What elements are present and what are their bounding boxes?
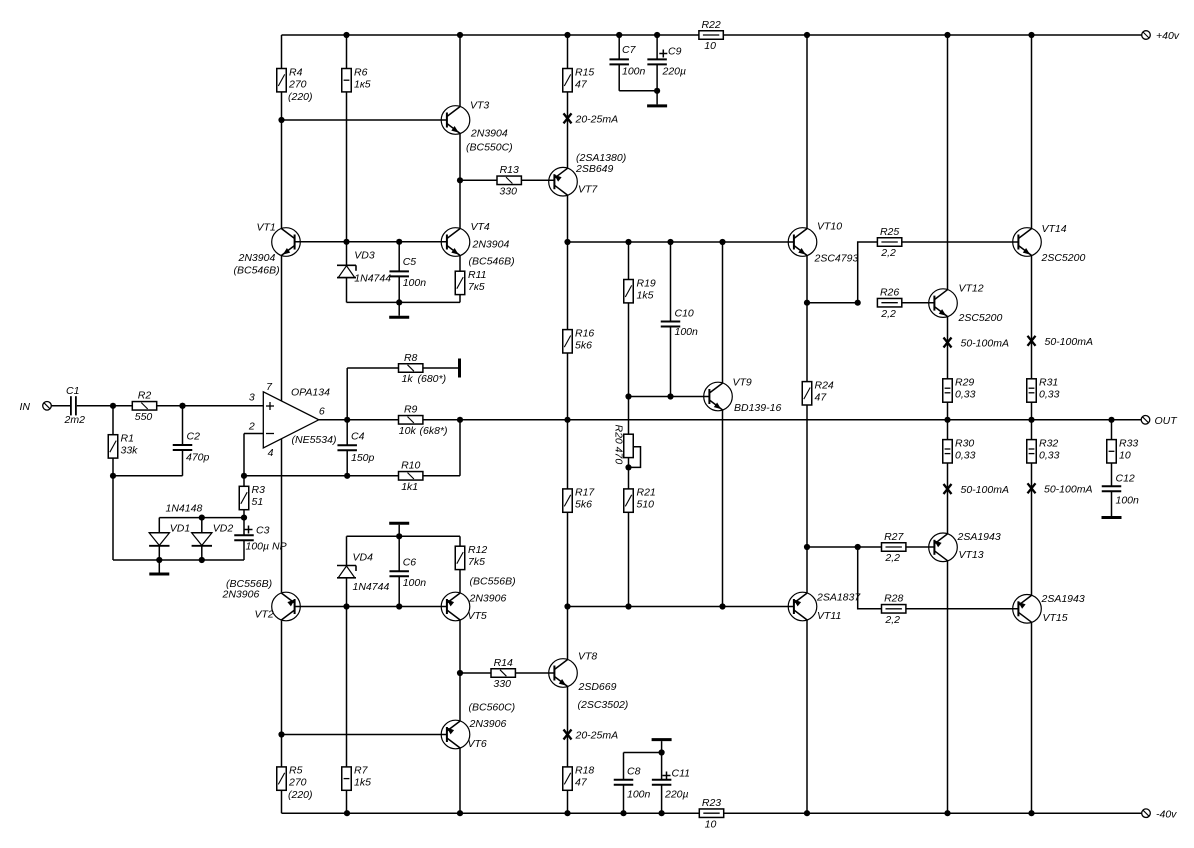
- junction VT6 base wire: [278, 731, 284, 737]
- wire C7 bottom: [618, 64, 620, 90]
- wire C2 top: [182, 406, 184, 445]
- resistor R16: [563, 327, 595, 353]
- svg-text:20-25mA: 20-25mA: [575, 730, 619, 742]
- wire rail to VT12: [947, 35, 949, 290]
- wire R13 to VT7 base: [521, 179, 554, 181]
- wire VT6 base wire: [282, 734, 447, 736]
- svg-text:2SD669: 2SD669: [578, 681, 617, 693]
- svg-text:2: 2: [248, 421, 255, 433]
- svg-text:R27: R27: [884, 531, 904, 543]
- diode VD1: [149, 523, 190, 546]
- svg-text:(NE5534): (NE5534): [292, 434, 337, 446]
- label OUT: [1155, 415, 1179, 427]
- junction C10 bottom: [667, 393, 673, 399]
- wire C6 bottom: [398, 576, 400, 606]
- svg-text:2m2: 2m2: [64, 414, 86, 426]
- resistor R4: [277, 66, 313, 103]
- svg-text:R22: R22: [701, 19, 720, 31]
- wire rail to R15: [567, 35, 569, 69]
- wire R19 to R20: [628, 303, 630, 434]
- svg-text:0,33: 0,33: [955, 449, 976, 461]
- wire VT10 emitter to R24: [806, 255, 808, 381]
- terminal IN: [43, 402, 52, 411]
- zener diode VD3: [337, 265, 356, 277]
- svg-text:R30: R30: [955, 437, 974, 449]
- svg-text:2SB649: 2SB649: [575, 163, 614, 175]
- wire feedback row to R10: [244, 475, 399, 477]
- wire R30 to VT13: [947, 463, 949, 534]
- svg-text:2SC4793: 2SC4793: [814, 253, 859, 265]
- wire C5 bottom: [398, 276, 400, 302]
- wire VT1 base to VT4 base: [295, 241, 447, 243]
- svg-text:-40v: -40v: [1156, 809, 1177, 821]
- capacitor C6: [389, 557, 426, 589]
- capacitor C8: [614, 766, 651, 801]
- svg-text:C1: C1: [66, 385, 79, 397]
- junction R33 top: [1108, 417, 1114, 423]
- svg-text:C10: C10: [675, 308, 694, 320]
- wire output node up to R8: [346, 368, 348, 420]
- wire C4 bottom: [346, 450, 348, 476]
- junction R27/R28 tap: [804, 544, 810, 550]
- junction R21/lower rail: [625, 603, 631, 609]
- svg-text:R15: R15: [575, 66, 594, 78]
- capacitor C4: [337, 431, 374, 464]
- wire C5 top: [398, 242, 400, 272]
- wire rail to VT8 collector: [567, 607, 569, 660]
- wire VT14 emitter to R31: [1031, 255, 1033, 378]
- svg-text:R25: R25: [880, 226, 899, 238]
- svg-text:VD2: VD2: [213, 523, 234, 535]
- inverted ground C8 C11: [652, 738, 672, 741]
- svg-text:2SC5200: 2SC5200: [1041, 252, 1086, 264]
- svg-text:7: 7: [266, 381, 273, 393]
- transistor VT14 2SC5200: [1013, 223, 1086, 264]
- svg-text:2N3906: 2N3906: [469, 718, 507, 730]
- svg-text:R9: R9: [404, 404, 418, 416]
- wire R3 top: [243, 476, 245, 487]
- junction VD2 top: [199, 515, 205, 521]
- junction R19 top: [625, 239, 631, 245]
- junction C8 bottom: [620, 810, 626, 816]
- svg-text:C7: C7: [622, 44, 637, 56]
- wire rail to R4: [281, 35, 283, 69]
- svg-text:R7: R7: [354, 765, 369, 777]
- junction R20 wiper: [625, 464, 631, 470]
- svg-text:5k6: 5k6: [575, 339, 592, 351]
- wire stub: [661, 741, 663, 752]
- svg-text:+40v: +40v: [1156, 30, 1180, 42]
- resistor R21: [624, 487, 656, 513]
- junction feedback/R3: [241, 473, 247, 479]
- svg-text:VT3: VT3: [470, 100, 489, 112]
- junction R25/R26 tap: [804, 300, 810, 306]
- svg-text:510: 510: [637, 499, 655, 511]
- junction R14 tap: [457, 670, 463, 676]
- junction R9/R10/output: [457, 417, 463, 423]
- wire R12 to VT5: [459, 570, 461, 594]
- svg-text:2,2: 2,2: [884, 552, 900, 564]
- junction R6/VD3: [343, 239, 349, 245]
- wire C10 bottom: [670, 327, 672, 397]
- wire pin2 down to feedback node: [243, 434, 245, 476]
- svg-text:R17: R17: [575, 487, 595, 499]
- svg-text:33k: 33k: [121, 445, 139, 457]
- transistor VT3 2N3904: [441, 100, 512, 154]
- svg-text:C12: C12: [1116, 473, 1135, 485]
- wire C9 top stub: [656, 35, 658, 59]
- resistor R12: [455, 544, 487, 570]
- transistor VT5 2N3906: [441, 576, 515, 623]
- svg-text:VT10: VT10: [817, 221, 842, 233]
- junction output/R31/R32: [1028, 417, 1034, 423]
- svg-text:VT6: VT6: [468, 738, 487, 750]
- junction VT7/R16: [564, 239, 570, 245]
- svg-text:R1: R1: [121, 433, 134, 445]
- svg-text:VT7: VT7: [578, 184, 598, 196]
- svg-text:1k5: 1k5: [354, 777, 371, 789]
- wire R4 to VT1 collector: [281, 92, 283, 229]
- svg-text:550: 550: [135, 411, 153, 423]
- wire VT7 to emitter rail: [567, 195, 569, 242]
- svg-text:C6: C6: [403, 557, 417, 569]
- svg-text:VD3: VD3: [354, 250, 375, 262]
- svg-text:2N3904: 2N3904: [238, 252, 276, 264]
- wire VT8 emitter to R18: [567, 686, 569, 767]
- wire C7 to C9 ground: [619, 90, 657, 92]
- junction R27/R28: [855, 544, 861, 550]
- wire C11 top stub: [661, 753, 663, 780]
- svg-text:2SC5200: 2SC5200: [958, 312, 1003, 324]
- ground C7C9: [647, 104, 667, 107]
- svg-text:VD4: VD4: [353, 552, 374, 564]
- svg-text:7к5: 7к5: [468, 281, 485, 293]
- svg-text:(680*): (680*): [418, 373, 447, 385]
- svg-text:VT11: VT11: [817, 610, 841, 622]
- svg-text:270: 270: [288, 777, 307, 789]
- junction C1/R1/R2: [110, 403, 116, 409]
- ground C12: [1102, 516, 1122, 519]
- resistor R18: [563, 765, 595, 791]
- svg-text:2,2: 2,2: [880, 247, 896, 259]
- wire rail to VT10: [806, 35, 808, 229]
- resistor R26: [877, 287, 901, 320]
- wire VD4 to base rail: [346, 578, 348, 607]
- resistor R19: [624, 277, 656, 303]
- capacitor C7: [609, 44, 645, 78]
- junction R25/R26: [855, 300, 861, 306]
- junction output/R29/R30: [944, 417, 950, 423]
- wire rail to R19: [628, 242, 630, 280]
- svg-text:10: 10: [705, 818, 717, 830]
- svg-text:7k5: 7k5: [468, 556, 485, 568]
- junction VT9/lower rail: [719, 603, 725, 609]
- svg-text:20-25mA: 20-25mA: [575, 114, 619, 126]
- junction VD2 bottom: [199, 557, 205, 563]
- wire up to R25: [858, 242, 878, 303]
- svg-text:R2: R2: [138, 390, 152, 402]
- transistor VT2 2N3906: [222, 578, 301, 621]
- current test point VT12 bias: [944, 338, 1009, 350]
- svg-text:1к5: 1к5: [354, 78, 371, 90]
- current test point VT15 bias: [1028, 483, 1093, 495]
- svg-text:270: 270: [288, 78, 307, 90]
- junction VT13 bottom: [944, 810, 950, 816]
- wire R25 to VT14 base: [902, 241, 1019, 243]
- capacitor C5: [389, 256, 426, 289]
- svg-text:1N4744: 1N4744: [354, 273, 391, 285]
- wire VD1 bottom stub: [158, 546, 160, 560]
- wire R24 to VT11: [806, 405, 808, 593]
- svg-text:C4: C4: [351, 431, 365, 443]
- svg-text:5k6: 5k6: [575, 499, 592, 511]
- terminal OUT: [1141, 416, 1150, 425]
- resistor R22: [699, 19, 723, 52]
- svg-text:VT5: VT5: [468, 610, 487, 622]
- resistor R8: [399, 352, 447, 385]
- resistor R2: [132, 390, 156, 423]
- capacitor C9: [647, 46, 686, 78]
- svg-text:2,2: 2,2: [880, 308, 896, 320]
- junction R1/C2 bottom: [110, 473, 116, 479]
- junction R15 top: [564, 32, 570, 38]
- svg-text:50-100mA: 50-100mA: [1044, 483, 1092, 495]
- current test point top bias: [564, 113, 619, 125]
- junction C10 top: [667, 239, 673, 245]
- wire bottom supply rail right of R23: [723, 812, 1142, 814]
- transistor VT1 2N3904: [234, 222, 301, 277]
- junction C5 top: [396, 239, 402, 245]
- svg-text:0,33: 0,33: [1039, 389, 1060, 401]
- svg-text:150p: 150p: [351, 452, 375, 464]
- junction C5 bottom: [396, 299, 402, 305]
- resistor R28: [882, 593, 906, 626]
- junction R13 tap: [457, 177, 463, 183]
- wire R33 to C12: [1111, 463, 1113, 486]
- svg-text:R20 470: R20 470: [613, 425, 625, 465]
- svg-text:100n: 100n: [403, 577, 427, 589]
- junction opamp output: [344, 417, 350, 423]
- junction C11 top: [659, 749, 665, 755]
- wire R11 to rail: [459, 295, 461, 303]
- junction R3/C3/diodes: [241, 515, 247, 521]
- wire C10 top: [670, 242, 672, 322]
- junction C9 bottom: [654, 88, 660, 94]
- svg-text:R16: R16: [575, 327, 594, 339]
- zener diode VD4: [337, 566, 356, 578]
- wire VD4 bottom to R7: [346, 607, 348, 767]
- wire R17 to lower rail: [567, 512, 569, 606]
- svg-text:IN: IN: [20, 401, 31, 413]
- resistor R7: [342, 765, 371, 791]
- wire C7 top stub: [618, 35, 620, 59]
- wire C3 bottom: [243, 540, 245, 560]
- wire top supply rail right of R22: [723, 34, 1141, 36]
- svg-text:3: 3: [249, 392, 255, 404]
- open stub terminal at R8: [458, 359, 461, 378]
- wire VD3 to C5 rail: [346, 278, 348, 303]
- wire bottom supply rail left of R23: [282, 812, 700, 814]
- junction R18 bottom: [564, 810, 570, 816]
- wire C11 bottom: [661, 785, 663, 813]
- transistor VT12 2SC5200: [929, 283, 1003, 325]
- wire R1 top: [112, 406, 114, 435]
- wire lower bias rail to VT11: [568, 606, 794, 608]
- svg-text:VD1: VD1: [170, 523, 190, 535]
- diode VD2: [192, 523, 234, 546]
- wire signal ground rail: [113, 559, 244, 561]
- junction VD4/R7: [343, 603, 349, 609]
- svg-text:R26: R26: [880, 287, 899, 299]
- junction R16/R17 output: [564, 417, 570, 423]
- resistor R31: [1027, 377, 1060, 403]
- junction R6 top: [343, 32, 349, 38]
- op-amp U1 OPA134: [248, 381, 337, 459]
- wire ground stub C5: [398, 302, 400, 315]
- junction VT10 collector: [804, 32, 810, 38]
- transistor VT8 2SD669: [549, 651, 629, 712]
- svg-text:R28: R28: [884, 593, 903, 605]
- transistor VT10 2SC4793: [788, 221, 858, 265]
- resistor R33: [1107, 437, 1139, 463]
- svg-text:R5: R5: [289, 765, 303, 777]
- svg-text:R33: R33: [1119, 437, 1138, 449]
- current test point VT14 bias: [1028, 336, 1093, 348]
- svg-text:BD139-16: BD139-16: [734, 402, 781, 414]
- capacitor C2: [173, 431, 210, 464]
- svg-text:0,33: 0,33: [1039, 449, 1060, 461]
- wire rail to VD4: [346, 536, 348, 565]
- junction R19/VT9 base: [625, 393, 631, 399]
- wire VT9 emitter to lower rail: [722, 410, 724, 607]
- svg-text:10: 10: [1119, 449, 1131, 461]
- svg-text:VT4: VT4: [471, 221, 490, 233]
- svg-text:47: 47: [815, 391, 828, 403]
- wire R8 to stub: [423, 367, 460, 369]
- svg-text:2N3904: 2N3904: [472, 239, 510, 251]
- svg-text:50-100mA: 50-100mA: [961, 484, 1009, 496]
- svg-text:2,2: 2,2: [884, 614, 900, 626]
- wire VT12 emitter to R29: [947, 317, 949, 379]
- svg-text:R19: R19: [637, 277, 656, 289]
- wire R27 to VT13 base: [906, 546, 935, 548]
- wire tap to R26 node: [807, 302, 858, 304]
- svg-text:1N4148: 1N4148: [166, 503, 203, 515]
- svg-text:R14: R14: [494, 657, 513, 669]
- wire R18 to bottom rail: [567, 790, 569, 813]
- svg-text:100µ NP: 100µ NP: [246, 541, 287, 553]
- svg-text:1k: 1k: [402, 373, 414, 385]
- wire VD2 bottom stub: [201, 546, 203, 560]
- resistor R9: [399, 404, 448, 437]
- wire to VT9 base: [629, 396, 710, 398]
- svg-text:50-100mA: 50-100mA: [961, 338, 1009, 350]
- wire ground stub: [158, 560, 160, 573]
- junction VT15 bottom: [1028, 810, 1034, 816]
- resistor R13: [497, 164, 521, 197]
- inverted ground C6: [389, 522, 409, 525]
- wire R2 to opamp pin3: [157, 405, 264, 407]
- junction R7 bottom: [344, 810, 350, 816]
- svg-text:1k5: 1k5: [637, 289, 654, 301]
- svg-text:VT8: VT8: [578, 651, 597, 663]
- svg-text:100n: 100n: [403, 277, 427, 289]
- wire C5 ground rail: [347, 301, 461, 303]
- wire R5 to bottom rail: [281, 790, 283, 813]
- svg-text:C2: C2: [187, 431, 201, 443]
- svg-text:R31: R31: [1039, 377, 1058, 389]
- terminal +40v: [1142, 31, 1151, 40]
- wire R21 to lower rail: [628, 512, 630, 606]
- wire C12 to ground: [1111, 491, 1113, 516]
- junction C4 bottom: [344, 473, 350, 479]
- wire VT2 to R5: [281, 621, 283, 767]
- svg-text:VT13: VT13: [959, 549, 984, 561]
- label -40v: [1156, 809, 1177, 821]
- svg-text:330: 330: [499, 186, 517, 198]
- wire to VD3: [346, 242, 348, 265]
- svg-text:2SA1943: 2SA1943: [1041, 593, 1085, 605]
- junction VT6 bottom: [457, 810, 463, 816]
- svg-text:6: 6: [319, 406, 325, 418]
- svg-text:OUT: OUT: [1155, 415, 1179, 427]
- svg-text:100n: 100n: [622, 66, 646, 78]
- wire R7 to bottom rail: [346, 790, 348, 813]
- junction ground stub: [156, 557, 162, 563]
- wire ground stub to rail: [398, 525, 400, 537]
- wire C2 bottom: [182, 450, 184, 476]
- wire VT4 emitter to R11: [459, 255, 461, 271]
- svg-text:R29: R29: [955, 377, 974, 389]
- wire R31 to R32: [1031, 402, 1033, 439]
- svg-text:VT15: VT15: [1043, 612, 1068, 624]
- wire IN to C1: [51, 405, 70, 407]
- svg-text:330: 330: [493, 678, 511, 690]
- label +40v: [1156, 30, 1180, 42]
- junction VT14 collector: [1028, 32, 1034, 38]
- svg-text:220µ: 220µ: [662, 66, 687, 78]
- svg-text:R21: R21: [637, 487, 656, 499]
- transistor VT7 2SB649: [549, 152, 627, 196]
- wire R16 to output rail: [567, 353, 569, 420]
- capacitor C11: [652, 768, 690, 801]
- junction VT12 collector: [944, 32, 950, 38]
- resistor R11: [455, 269, 486, 295]
- capacitor C3: [234, 525, 286, 553]
- svg-text:(BC546B): (BC546B): [469, 256, 515, 268]
- wire VT13 collector to bottom rail: [947, 561, 949, 814]
- wire C8 top: [623, 753, 625, 780]
- wire VT11 collector to bottom rail: [806, 620, 808, 813]
- wire rail to R16: [567, 242, 569, 330]
- wire R26 to VT12 base: [902, 302, 935, 304]
- svg-text:10: 10: [704, 40, 716, 52]
- wire R10 node up to output rail: [459, 420, 461, 476]
- svg-text:R6: R6: [354, 66, 368, 78]
- resistor R30: [943, 437, 976, 463]
- junction C9 top: [654, 32, 660, 38]
- resistor R32: [1027, 437, 1060, 463]
- wire C8 to C11 top: [624, 752, 662, 754]
- trimmer resistor R20: [613, 425, 641, 468]
- wire VT3 emitter to VT4 collector: [459, 133, 461, 228]
- wire output rail R9 to OUT: [423, 419, 1141, 421]
- junction C2 top: [179, 403, 185, 409]
- resistor R15: [563, 66, 595, 92]
- wire VT15 collector to bottom rail: [1031, 622, 1033, 813]
- svg-text:C9: C9: [668, 46, 682, 58]
- transistor VT13 2SA1943: [929, 531, 1001, 562]
